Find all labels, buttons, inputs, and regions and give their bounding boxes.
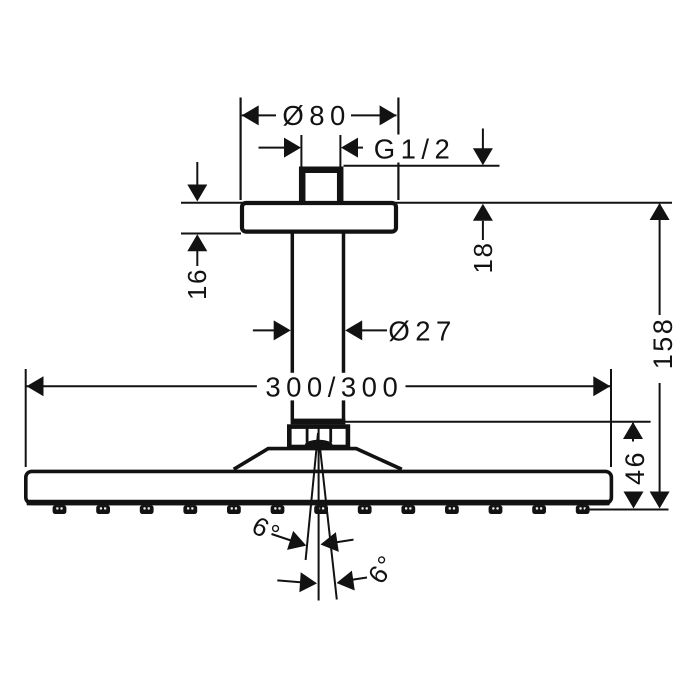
dim 46 arrowhead lower (624, 492, 644, 509)
dim 158 arrowhead upper (650, 203, 670, 220)
svg-text:Ø80: Ø80 (282, 100, 350, 131)
dim O80 right extension line upper (397, 98, 399, 135)
svg-text:G1/2: G1/2 (374, 134, 456, 165)
housing inner right line (329, 428, 332, 443)
angle arrow upper-left stem (272, 534, 292, 541)
pipe right edge (342, 234, 346, 420)
label 300/300 backing (262, 373, 405, 401)
angle arrowhead lower-right (335, 571, 355, 593)
angle arrow upper-right stem (337, 540, 354, 543)
angle arrow lower-right stem (352, 578, 367, 580)
svg-text:16: 16 (182, 268, 212, 300)
angle arrow lower-left stem (277, 580, 300, 582)
dim 18 arrowhead lower (473, 204, 493, 221)
spray line left (306, 433, 318, 560)
shower head body (26, 471, 612, 503)
dim 16 arrowhead upper (187, 185, 207, 202)
dim 18 arrowhead upper (473, 148, 493, 165)
dim 300 arrowhead left (27, 376, 44, 396)
dim O27 arrowhead left (274, 320, 291, 340)
dim 158 line lower segment (659, 383, 661, 507)
svg-text:158: 158 (648, 317, 678, 370)
trapezoid transition (234, 449, 402, 470)
connector square G1/2 thread (302, 170, 340, 203)
dim G12 left stem (259, 147, 286, 149)
dim 300 line right segment (406, 385, 611, 387)
dim O80 arrowhead right (380, 105, 397, 125)
dim 158 line upper segment (659, 204, 661, 315)
dim 46 arrowhead upper (623, 422, 643, 439)
dim 158 arrowhead lower (650, 492, 670, 509)
dim 300 arrowhead right (593, 376, 610, 396)
flange escutcheon (242, 203, 396, 232)
spray line right (320, 443, 337, 600)
svg-text:6°: 6° (247, 510, 286, 550)
angle arrowhead upper-left (287, 531, 309, 555)
dim G12 left extension line (300, 135, 302, 167)
dim O80 line right segment (351, 114, 397, 116)
dim 300 left extension line (25, 369, 27, 467)
dim O80 left extension line (240, 98, 242, 201)
dim 46 extension line (345, 421, 651, 423)
spray line center (318, 428, 320, 601)
angle arrowhead upper-right (319, 532, 339, 554)
dim O80 line left segment (242, 114, 276, 116)
dim 16 lower stem (196, 251, 198, 266)
dim O80 arrowhead left (242, 105, 259, 125)
nozzle tabs (53, 505, 590, 514)
dim O27 arrowhead right (345, 320, 362, 340)
ball (305, 440, 332, 450)
svg-text:46: 46 (620, 450, 650, 485)
dim G12 right extension line (339, 135, 341, 167)
dim 18 lower stem (482, 221, 484, 240)
dim O27 left stem (253, 329, 275, 331)
ball joint cap bar (291, 419, 346, 425)
dim G12 right stem (357, 147, 363, 149)
dim 18 upper stem (482, 129, 484, 151)
dim O27 right stem (362, 329, 388, 331)
svg-text:6°: 6° (362, 549, 403, 589)
dim 300 right extension line (610, 369, 612, 467)
ceiling line (181, 202, 672, 204)
nozzle dots (56, 507, 586, 509)
ball joint housing (289, 427, 348, 447)
dim 46 upper stem (632, 423, 634, 442)
svg-text:18: 18 (468, 242, 498, 274)
dim G12 arrowhead left (284, 138, 301, 158)
dim 300 line left segment (27, 385, 257, 387)
flange underside extension line left (181, 233, 241, 235)
housing inner left line (306, 428, 309, 443)
svg-text:Ø27: Ø27 (388, 315, 456, 346)
bottom extension line (585, 509, 669, 511)
dim O80 right extension line lower (397, 163, 399, 201)
shower head bottom bar (27, 500, 610, 506)
dim 16 upper stem (196, 162, 198, 185)
dim 18 extension line (344, 165, 500, 167)
angle arrowhead lower-left (299, 572, 317, 593)
dim 16 arrowhead lower (187, 234, 207, 251)
pipe left edge (291, 234, 295, 420)
dim G12 arrowhead right (341, 138, 358, 158)
svg-text:300/300: 300/300 (265, 371, 403, 402)
